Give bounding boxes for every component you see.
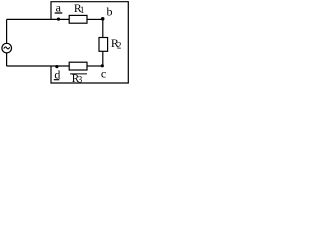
node d label underline — [54, 79, 60, 81]
label R3 overline — [70, 73, 87, 75]
wire: R2 down to node c — [102, 51, 104, 66]
wire: bottom wire right segment (R3 to node c) — [87, 65, 103, 67]
wire: top wire left segment (TL corner to R1) — [7, 18, 70, 20]
node d junction dot — [55, 65, 58, 68]
node b junction dot — [101, 17, 105, 21]
svg-text:1: 1 — [80, 5, 85, 15]
node a junction dot — [57, 18, 60, 21]
node c junction dot — [101, 64, 104, 67]
resistor R1 — [69, 15, 87, 23]
svg-text:a: a — [56, 0, 62, 14]
svg-text:c: c — [101, 67, 106, 81]
resistor R2 — [99, 38, 108, 52]
AC source — [2, 43, 12, 53]
node a label underline — [55, 12, 63, 14]
wire: outer bypass loop a-top-right-bottom-d — [51, 2, 128, 83]
svg-text:b: b — [107, 4, 113, 18]
resistor R3 — [69, 62, 87, 70]
wire: top wire right segment (R1 to node b) — [87, 18, 103, 20]
wire: left side above source — [6, 19, 8, 43]
svg-text:3: 3 — [78, 75, 83, 84]
svg-text:2: 2 — [117, 40, 122, 50]
wire: bottom wire left segment (BL corner to R3) — [7, 65, 70, 67]
wire: node b down to R2 — [102, 19, 104, 37]
wire: left side below source — [6, 53, 8, 66]
